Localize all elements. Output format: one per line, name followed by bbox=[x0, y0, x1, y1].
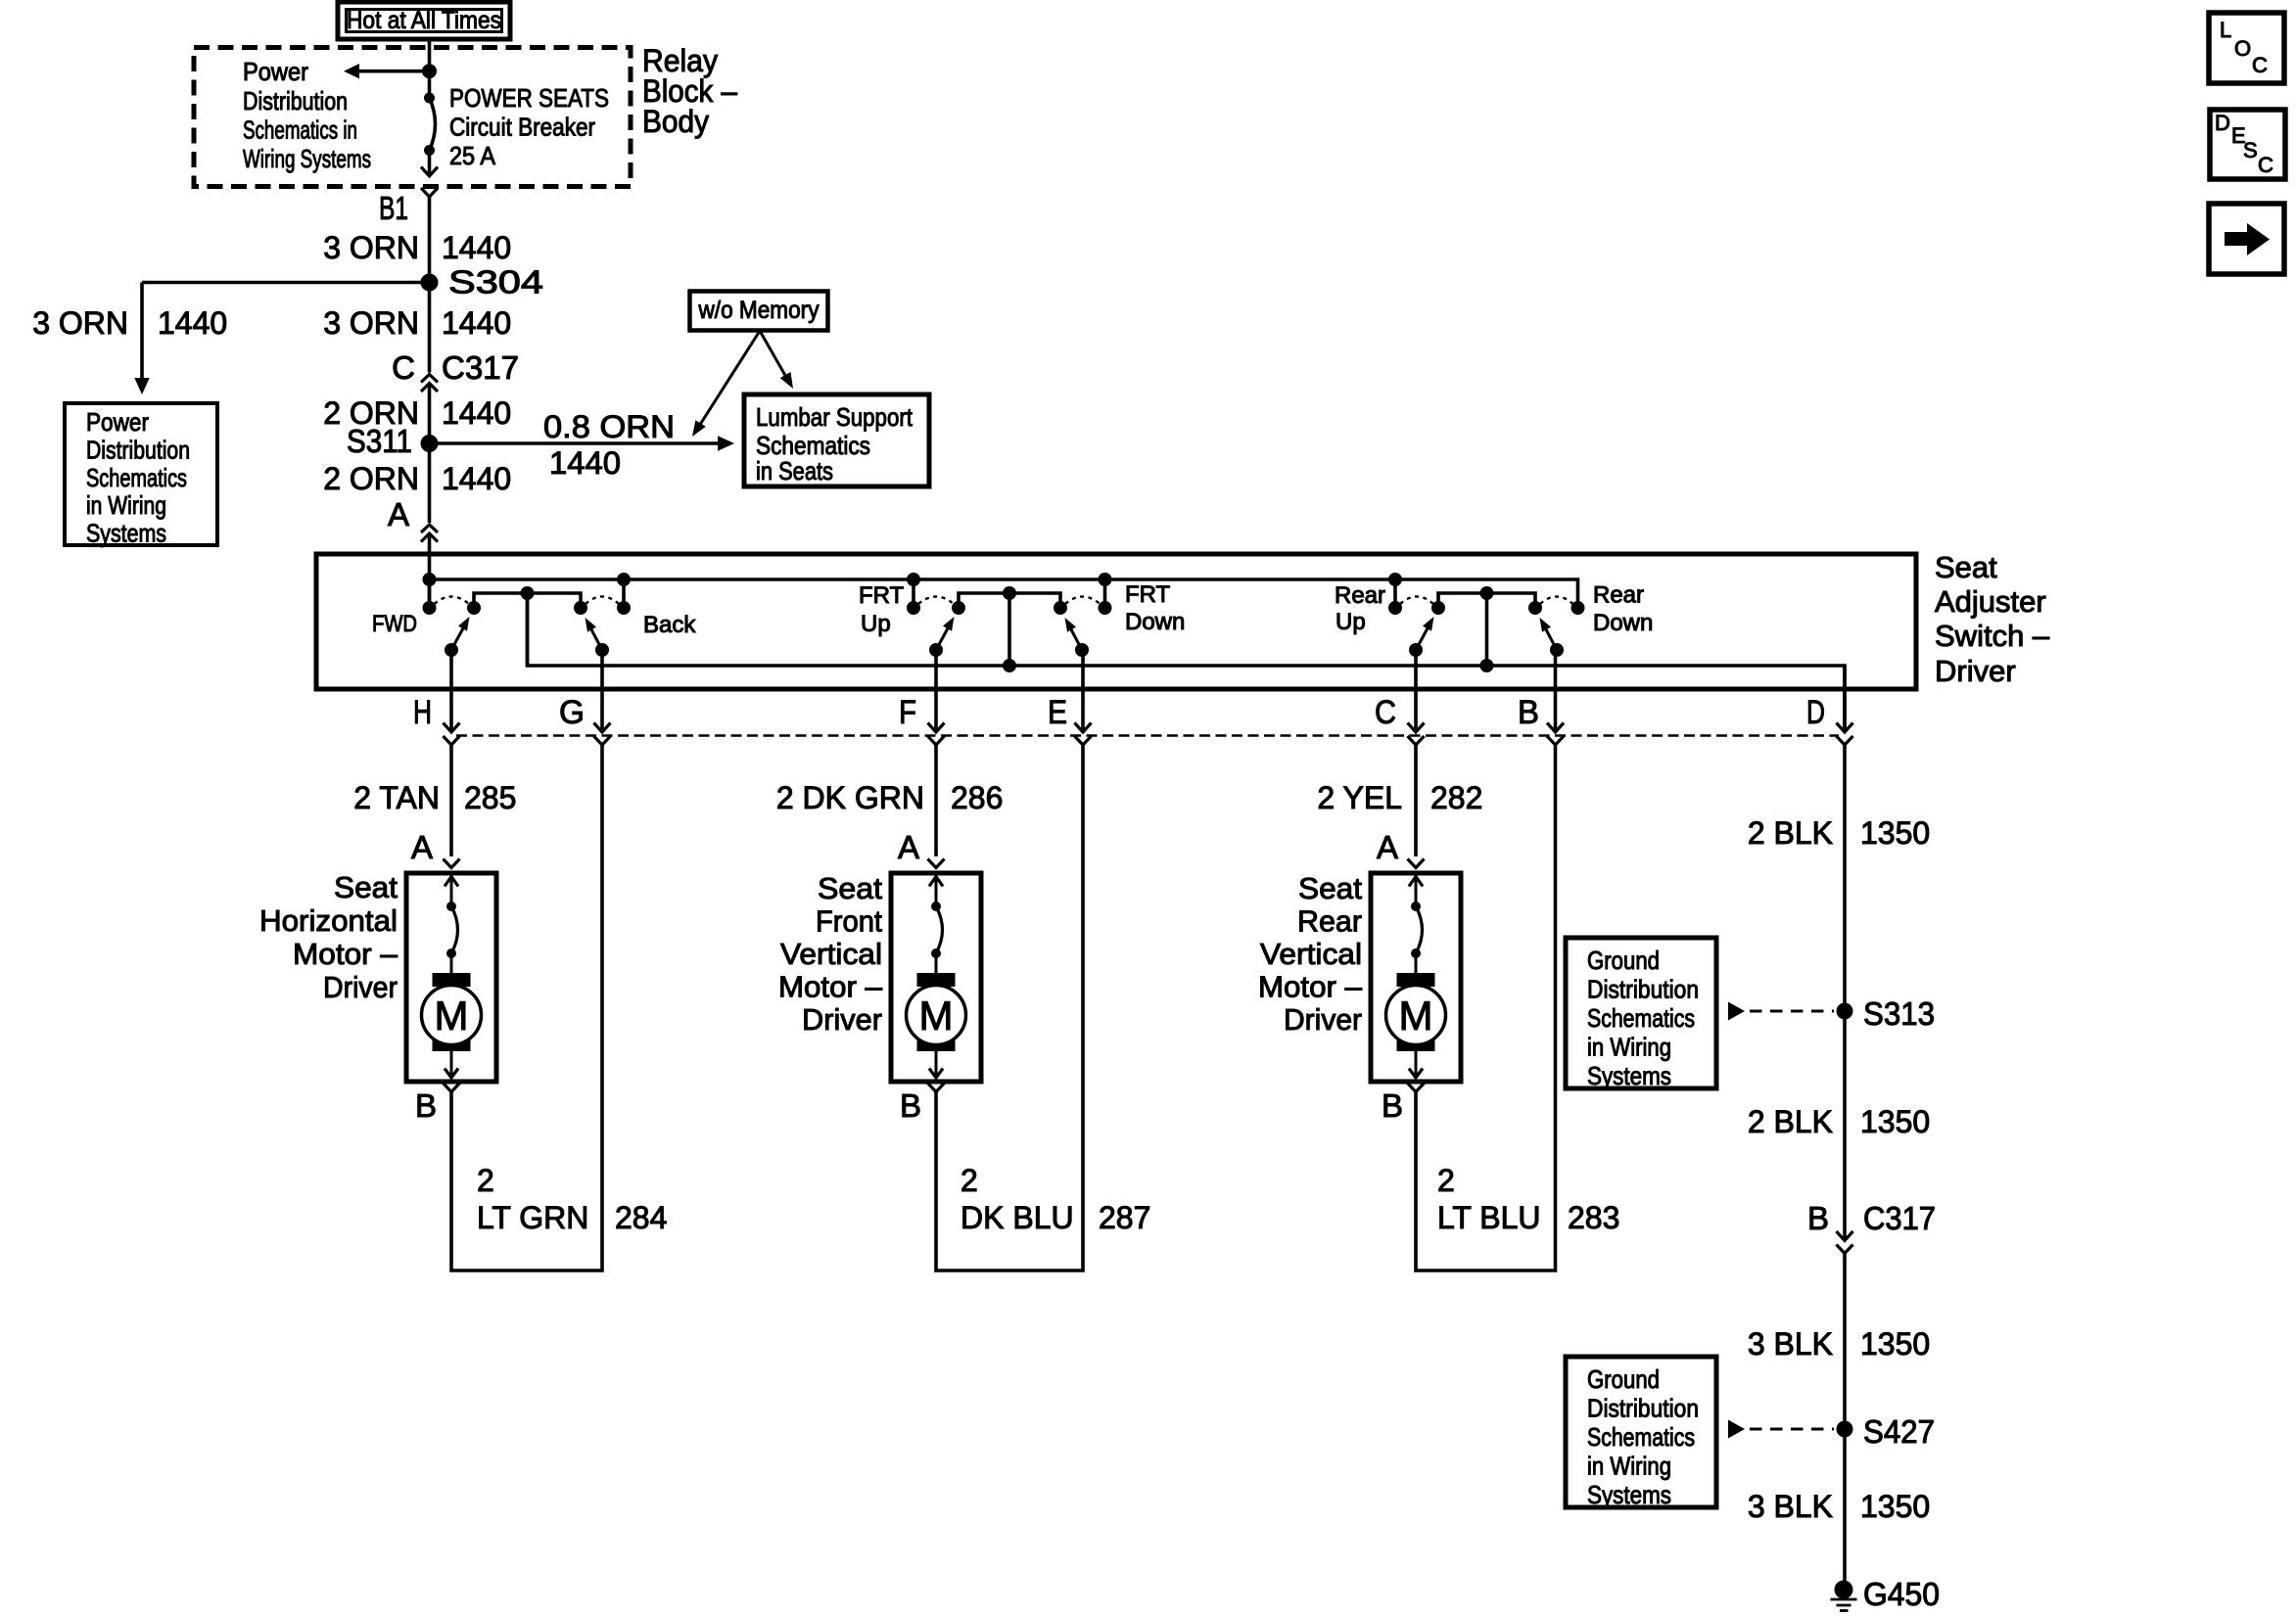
svg-text:1350: 1350 bbox=[1860, 815, 1930, 851]
svg-text:in Wiring: in Wiring bbox=[86, 490, 166, 520]
svg-text:D: D bbox=[2215, 111, 2230, 135]
svg-text:Motor –: Motor – bbox=[293, 937, 398, 971]
svg-text:2 DK GRN: 2 DK GRN bbox=[776, 780, 924, 815]
svg-text:Distribution: Distribution bbox=[86, 435, 190, 464]
svg-text:Switch –: Switch – bbox=[1935, 619, 2050, 653]
svg-text:Adjuster: Adjuster bbox=[1935, 584, 2046, 619]
svg-text:2 BLK: 2 BLK bbox=[1748, 1104, 1833, 1139]
svg-text:M: M bbox=[919, 993, 954, 1039]
svg-text:Rear: Rear bbox=[1297, 904, 1362, 939]
svg-text:3 ORN: 3 ORN bbox=[32, 305, 128, 341]
svg-text:Power: Power bbox=[86, 407, 149, 437]
svg-text:G450: G450 bbox=[1863, 1576, 1940, 1612]
svg-text:A: A bbox=[1377, 829, 1398, 865]
svg-text:LT GRN: LT GRN bbox=[477, 1200, 588, 1235]
svg-text:B1: B1 bbox=[379, 190, 408, 226]
svg-text:C: C bbox=[2258, 153, 2273, 177]
svg-text:B: B bbox=[1382, 1087, 1403, 1124]
svg-text:Seat: Seat bbox=[1935, 550, 1997, 584]
svg-text:Motor –: Motor – bbox=[778, 970, 883, 1004]
svg-text:Schematics in: Schematics in bbox=[243, 115, 357, 145]
svg-text:Wiring Systems: Wiring Systems bbox=[243, 144, 371, 173]
svg-text:Rear: Rear bbox=[1593, 582, 1644, 609]
svg-text:Distribution: Distribution bbox=[243, 86, 348, 115]
svg-text:Driver: Driver bbox=[802, 1002, 882, 1037]
svg-text:Vertical: Vertical bbox=[780, 937, 882, 971]
svg-text:Schematics: Schematics bbox=[1587, 1422, 1695, 1452]
svg-text:2 BLK: 2 BLK bbox=[1748, 815, 1833, 851]
svg-text:H: H bbox=[413, 694, 432, 731]
svg-text:Systems: Systems bbox=[1587, 1480, 1671, 1509]
svg-text:Distribution: Distribution bbox=[1587, 975, 1699, 1004]
svg-text:Circuit Breaker: Circuit Breaker bbox=[449, 113, 595, 142]
svg-text:DK BLU: DK BLU bbox=[961, 1200, 1074, 1235]
svg-text:Body: Body bbox=[642, 104, 709, 139]
svg-text:C: C bbox=[392, 349, 415, 386]
svg-text:3 BLK: 3 BLK bbox=[1748, 1489, 1833, 1524]
svg-text:FWD: FWD bbox=[372, 611, 417, 637]
svg-text:F: F bbox=[899, 694, 916, 731]
svg-text:Lumbar Support: Lumbar Support bbox=[756, 402, 914, 432]
svg-text:285: 285 bbox=[464, 780, 516, 815]
svg-text:O: O bbox=[2234, 36, 2251, 61]
svg-text:Driver: Driver bbox=[323, 970, 398, 1004]
svg-text:Seat: Seat bbox=[818, 871, 882, 905]
svg-text:A: A bbox=[411, 829, 433, 865]
svg-text:Systems: Systems bbox=[1587, 1061, 1671, 1090]
svg-text:2 ORN: 2 ORN bbox=[323, 461, 419, 496]
svg-text:1440: 1440 bbox=[442, 305, 511, 341]
svg-text:1350: 1350 bbox=[1860, 1326, 1930, 1362]
svg-text:0.8 ORN: 0.8 ORN bbox=[543, 409, 675, 444]
svg-text:287: 287 bbox=[1099, 1200, 1150, 1235]
svg-text:Systems: Systems bbox=[86, 519, 166, 548]
svg-text:3 ORN: 3 ORN bbox=[323, 305, 419, 341]
svg-text:A: A bbox=[388, 496, 409, 532]
svg-text:in Wiring: in Wiring bbox=[1587, 1452, 1671, 1481]
svg-text:FRT: FRT bbox=[859, 582, 905, 609]
svg-text:D: D bbox=[1806, 694, 1825, 731]
svg-text:2: 2 bbox=[961, 1163, 978, 1198]
svg-text:C317: C317 bbox=[442, 349, 519, 386]
svg-text:1440: 1440 bbox=[442, 230, 511, 265]
svg-text:3 BLK: 3 BLK bbox=[1748, 1326, 1833, 1362]
svg-text:B: B bbox=[1807, 1200, 1829, 1236]
svg-text:Schematics: Schematics bbox=[1587, 1003, 1695, 1033]
svg-text:1440: 1440 bbox=[442, 395, 511, 431]
svg-text:M: M bbox=[435, 993, 469, 1039]
svg-text:S427: S427 bbox=[1863, 1413, 1935, 1450]
svg-text:Seat: Seat bbox=[1298, 871, 1362, 905]
svg-text:POWER SEATS: POWER SEATS bbox=[449, 83, 609, 113]
svg-text:C317: C317 bbox=[1863, 1200, 1936, 1236]
svg-text:Up: Up bbox=[861, 611, 891, 637]
svg-text:S311: S311 bbox=[347, 423, 412, 459]
svg-text:Down: Down bbox=[1593, 610, 1653, 636]
svg-text:Driver: Driver bbox=[1284, 1002, 1362, 1037]
svg-text:G: G bbox=[559, 694, 585, 731]
svg-text:1350: 1350 bbox=[1860, 1489, 1930, 1524]
svg-text:282: 282 bbox=[1430, 780, 1482, 815]
svg-text:284: 284 bbox=[615, 1200, 667, 1235]
svg-text:Front: Front bbox=[816, 904, 882, 939]
svg-text:C: C bbox=[1375, 694, 1396, 731]
svg-text:286: 286 bbox=[951, 780, 1003, 815]
svg-text:Rear: Rear bbox=[1335, 582, 1385, 609]
svg-text:in Wiring: in Wiring bbox=[1587, 1033, 1671, 1062]
svg-text:S: S bbox=[2243, 138, 2258, 162]
svg-text:1350: 1350 bbox=[1860, 1104, 1930, 1139]
svg-text:Back: Back bbox=[643, 612, 696, 638]
svg-text:E: E bbox=[1048, 694, 1067, 731]
svg-text:Driver: Driver bbox=[1935, 654, 2016, 688]
svg-text:FRT: FRT bbox=[1125, 581, 1171, 608]
svg-text:Power: Power bbox=[243, 57, 308, 86]
svg-text:Motor –: Motor – bbox=[1258, 970, 1363, 1004]
svg-text:LT BLU: LT BLU bbox=[1437, 1200, 1541, 1235]
svg-text:283: 283 bbox=[1568, 1200, 1619, 1235]
svg-text:B: B bbox=[900, 1087, 921, 1124]
svg-text:2 YEL: 2 YEL bbox=[1317, 780, 1402, 815]
svg-text:C: C bbox=[2252, 53, 2268, 77]
svg-text:Ground: Ground bbox=[1587, 1364, 1660, 1394]
svg-text:S313: S313 bbox=[1863, 995, 1935, 1032]
svg-text:Hot at All Times: Hot at All Times bbox=[347, 7, 501, 34]
svg-text:25 A: 25 A bbox=[449, 141, 496, 170]
svg-text:1440: 1440 bbox=[442, 461, 511, 496]
svg-text:2: 2 bbox=[477, 1163, 494, 1198]
svg-text:1440: 1440 bbox=[158, 305, 227, 341]
svg-text:Seat: Seat bbox=[334, 870, 398, 904]
svg-text:A: A bbox=[898, 829, 919, 865]
svg-text:S304: S304 bbox=[448, 264, 543, 300]
svg-text:2: 2 bbox=[1437, 1163, 1455, 1198]
svg-text:Schematics: Schematics bbox=[86, 463, 187, 492]
svg-text:M: M bbox=[1399, 993, 1433, 1039]
svg-text:in Seats: in Seats bbox=[756, 456, 833, 485]
svg-text:Up: Up bbox=[1335, 609, 1366, 635]
svg-text:Horizontal: Horizontal bbox=[259, 903, 398, 938]
svg-text:Vertical: Vertical bbox=[1260, 937, 1362, 971]
svg-text:2 TAN: 2 TAN bbox=[353, 780, 440, 815]
svg-text:B: B bbox=[415, 1087, 437, 1124]
svg-text:B: B bbox=[1518, 694, 1539, 731]
svg-text:L: L bbox=[2220, 18, 2231, 42]
svg-text:Down: Down bbox=[1125, 609, 1185, 635]
svg-text:w/o Memory: w/o Memory bbox=[698, 297, 820, 324]
svg-text:1440: 1440 bbox=[549, 445, 621, 481]
svg-text:Distribution: Distribution bbox=[1587, 1394, 1699, 1423]
svg-text:Ground: Ground bbox=[1587, 946, 1660, 975]
svg-text:3 ORN: 3 ORN bbox=[323, 230, 419, 265]
